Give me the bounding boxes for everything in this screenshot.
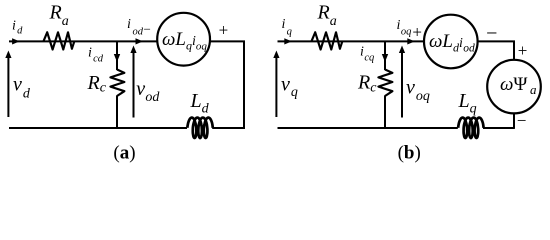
svg-text:iq: iq [282,17,292,37]
wire: circuit (a) top-right corner, right side and bottom-right to inductor [210,41,244,128]
wire: v_od voltage arrow shaft (a) [133,52,135,118]
inductor Ld coil [187,118,212,138]
svg-text:−: − [144,22,151,37]
arrowhead: v_oq voltage arrow (b) [399,46,405,54]
svg-text:(a): (a) [113,143,135,164]
wire: circuit (a) Rc branch upper segment from top-wire junction [116,41,118,70]
arrowhead: v_od voltage arrow (a) [130,46,136,54]
arrowhead: i_oq current arrow (b) [407,38,415,44]
svg-text:icq: icq [360,45,374,64]
wire: circuit (b) from second circle bottom to bottom wire [513,113,515,128]
resistor Rc (a) vertical zigzag [110,70,124,97]
arrowhead: i_cq current arrow down (b) [382,54,388,62]
arrowhead: i_q current arrow (b) [284,38,292,44]
wire: v_d voltage arrow shaft (a) [7,57,9,118]
resistor Ra (b) zigzag [311,32,342,49]
svg-text:−: − [486,23,497,45]
svg-text:+: + [518,41,528,60]
wire: circuit (b) top wire from left port to source circle [278,40,425,42]
wire: circuit (b) from first circle to top-right corner down to second circle [478,41,514,59]
svg-text:(b): (b) [398,143,421,164]
arrowhead: i_d current arrow (a) [12,38,20,44]
wire: circuit (a) top wire from left port to source circle [9,40,158,42]
arrowhead: i_cd current arrow down (a) [114,54,120,62]
svg-text:id: id [12,19,23,37]
svg-text:voq: voq [406,77,430,105]
wire: circuit (b) bottom wire from inductor to left port [278,127,458,129]
wire: circuit (b) bottom wire from right corner to inductor [483,127,515,129]
arrowhead: v_q voltage arrow (b) [273,51,279,59]
svg-text:Rc: Rc [87,72,107,96]
wire: circuit (b) Rc branch lower segment to bottom wire [384,96,386,129]
voltage source U3: omega*Psi_a circle (b) [487,60,541,114]
svg-text:Rc: Rc [357,72,377,96]
svg-text:ioq: ioq [397,18,412,38]
wire: circuit (a) bottom wire from inductor to left port [9,127,187,129]
resistor Rc (b) vertical zigzag [378,70,392,97]
wire: circuit (b) Rc branch upper segment from top-wire junction [384,41,386,70]
svg-text:iod: iod [127,17,144,38]
inductor Lq coil [458,118,483,138]
svg-text:+: + [219,20,229,39]
svg-text:vd: vd [13,73,31,101]
arrowhead: i_od current arrow (a) [136,38,144,44]
svg-text:Ra: Ra [317,2,337,30]
svg-text:Lq: Lq [458,90,477,117]
wire: circuit (a) Rc branch lower segment to bottom wire [116,96,118,129]
wire: v_oq voltage arrow shaft (b) [401,52,403,118]
svg-text:Ld: Ld [190,90,210,117]
svg-text:vod: vod [136,78,160,105]
arrowhead: v_d voltage arrow (a) [5,51,11,59]
resistor Ra (a) zigzag [43,32,74,49]
voltage source U1: omega*Lq*ioq circle (a) [157,13,210,66]
wire: v_q voltage arrow shaft (b) [275,57,277,118]
svg-text:−: − [517,111,527,130]
svg-text:Ra: Ra [49,2,69,30]
voltage source U2: omega*Ld*iod circle (b) [424,15,478,69]
svg-text:vq: vq [281,73,298,100]
svg-text:+: + [412,23,422,42]
svg-text:icd: icd [88,46,104,65]
